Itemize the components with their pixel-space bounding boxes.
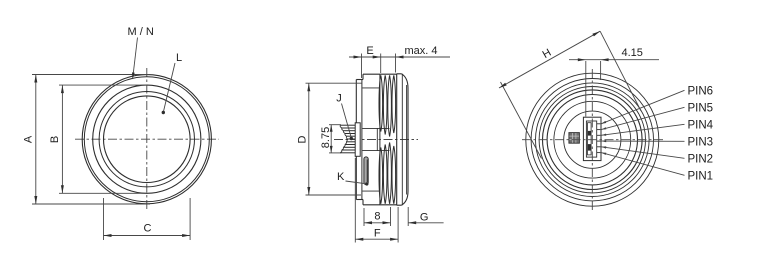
svg-text:PIN1: PIN1: [688, 170, 714, 182]
svg-text:PIN2: PIN2: [688, 153, 714, 165]
dim B extension bottom: [59, 192, 147, 194]
front rim left face lower: [355, 156, 357, 199]
pin 1 leader: [601, 153, 684, 176]
svg-text:L: L: [176, 52, 182, 64]
svg-text:4.15: 4.15: [622, 47, 643, 59]
rear view centerline horizontal: [522, 139, 663, 141]
rear block contact strip: [588, 123, 592, 155]
dim 875 arrow top: [330, 125, 333, 132]
dim G line: [408, 222, 443, 224]
dim A arrow bottom: [34, 196, 37, 204]
svg-text:B: B: [49, 136, 61, 143]
dim A extension bottom: [32, 203, 150, 205]
nut chamfer inner line: [401, 74, 403, 205]
contact plate: [355, 123, 360, 157]
pin 3 leader arrow: [601, 140, 606, 142]
leader M/N: [133, 38, 138, 77]
nut bottom edge: [397, 204, 402, 206]
nut front face: [396, 74, 398, 205]
dim B arrow top: [61, 85, 64, 93]
dim B line: [61, 85, 63, 193]
leader J dot: [350, 137, 353, 140]
body left face top step: [362, 74, 364, 79]
dim 415 line: [569, 59, 659, 61]
dim A arrow top: [34, 75, 37, 83]
side view centerline: [334, 139, 418, 141]
rear block pin ticks: [597, 123, 601, 125]
rear view circle ring5: [543, 90, 643, 190]
pin 5 leader arrow: [601, 127, 606, 129]
dim A line: [35, 75, 37, 205]
bore hidden edge top: [362, 87, 380, 89]
dim E max4 line: [349, 56, 450, 58]
dim D arrow top: [307, 83, 310, 91]
dim E arrow: [354, 56, 362, 59]
svg-text:J: J: [336, 93, 342, 105]
dim G arrow: [408, 221, 416, 224]
svg-text:PIN3: PIN3: [688, 136, 714, 148]
svg-text:M / N: M / N: [128, 26, 154, 38]
svg-text:C: C: [144, 223, 152, 235]
dim D ext top: [306, 82, 362, 84]
dim C extension right: [189, 198, 191, 240]
dim 8 arrow right: [383, 221, 391, 224]
svg-text:A: A: [23, 135, 35, 143]
front view circle mid: [99, 92, 194, 187]
rear view circle ring7: [554, 101, 631, 178]
rear view circle knurl outer: [531, 79, 653, 201]
dim 875 ext top: [329, 124, 341, 126]
body bottom edge: [363, 204, 397, 206]
dim H arrow right: [592, 31, 600, 36]
rear block pad upper: [588, 131, 591, 136]
pin 2 leader arrow: [601, 146, 606, 148]
body left face bottom step: [362, 200, 364, 205]
leader L dot: [162, 111, 165, 114]
dim C arrow right: [182, 234, 190, 237]
dim B arrow bottom: [61, 185, 64, 193]
dim 415 ext right: [600, 61, 602, 80]
dim F ext right: [397, 207, 399, 243]
svg-text:E: E: [366, 45, 373, 57]
rear block outer: [583, 117, 601, 160]
dim H ext left: [501, 82, 542, 159]
front rim left face: [355, 80, 357, 123]
leader J: [342, 104, 352, 137]
pin 3 leader: [601, 140, 684, 142]
front view centerline vertical: [146, 68, 148, 211]
rear view circle ring4: [539, 87, 645, 193]
thread profile: [379, 75, 383, 131]
seal K body: [364, 157, 368, 185]
dim 875 arrow bottom: [330, 146, 333, 153]
svg-text:PIN6: PIN6: [688, 85, 714, 97]
svg-text:8: 8: [374, 210, 380, 222]
rear block pad lower: [588, 144, 591, 151]
nut top edge: [397, 73, 402, 75]
dim E arrow 2: [373, 56, 381, 59]
pin 4 leader: [601, 124, 684, 135]
dim C arrow left: [104, 234, 112, 237]
dim D ext bottom: [306, 194, 362, 196]
rear view circle ring3: [536, 83, 650, 197]
front view centerline horizontal: [75, 138, 219, 140]
front rim bottom edge: [356, 199, 363, 201]
rear view circle inner: [564, 111, 621, 168]
dim 8 ext right: [390, 207, 392, 226]
cavity edge bottom: [362, 150, 389, 152]
flange rear face: [379, 74, 381, 205]
svg-text:F: F: [374, 228, 381, 240]
svg-text:D: D: [297, 135, 309, 143]
dim E ext line 2: [380, 54, 382, 74]
dim 415 arrow right: [601, 58, 609, 61]
dim 8 arrow left: [364, 221, 372, 224]
pin 6 leader: [601, 90, 684, 124]
dim max4 arrow: [396, 56, 404, 59]
dim 875 line: [330, 125, 332, 153]
cavity edge top: [362, 127, 389, 129]
svg-text:K: K: [337, 171, 345, 183]
bore hidden edge bottom: [362, 190, 380, 192]
dim H ext right: [600, 31, 641, 111]
svg-text:PIN4: PIN4: [688, 119, 714, 131]
nut chamfer bottom: [402, 192, 409, 206]
seal K inner line: [366, 160, 368, 183]
leader L: [164, 63, 175, 111]
dim 8 ext left: [363, 208, 365, 226]
rear block inner: [586, 121, 596, 157]
dim 875 ext bottom: [329, 152, 341, 154]
dim F arrow left: [355, 238, 363, 241]
front view circle dia C: [104, 96, 191, 183]
leader K dot: [365, 182, 368, 185]
front view outer circle (thread OD): [82, 75, 211, 204]
dim D arrow bottom: [307, 187, 310, 195]
svg-text:max. 4: max. 4: [405, 45, 438, 57]
front face line: [361, 80, 363, 200]
svg-text:PIN5: PIN5: [688, 102, 714, 114]
front view outer circle inner line: [84, 77, 209, 202]
svg-text:G: G: [420, 212, 429, 224]
svg-text:8.75: 8.75: [320, 127, 332, 148]
dim 8 line: [364, 222, 391, 224]
dim H arrow left: [499, 83, 507, 88]
leader M/N arrow: [132, 72, 135, 79]
leader K: [346, 181, 365, 184]
pin 6 leader arrow: [601, 121, 606, 124]
dim F line: [355, 238, 398, 240]
rear view circle outer: [526, 73, 659, 206]
rear view circle ring6: [547, 95, 637, 185]
pin 1 leader arrow: [601, 153, 606, 155]
dim F ext left: [354, 158, 356, 243]
body top edge: [363, 73, 397, 75]
dim D line: [308, 83, 310, 195]
cavity step: [376, 128, 378, 150]
keyway grid: [569, 133, 580, 144]
dim max4 ext line: [395, 54, 397, 73]
pin 2 leader: [601, 147, 684, 159]
dim 415 arrow left: [578, 58, 586, 61]
dim E ext line: [361, 54, 363, 79]
dim A extension top: [32, 74, 150, 76]
front view circle dia B: [93, 85, 201, 193]
dim B extension top: [59, 84, 147, 86]
dim G ext right: [407, 207, 409, 226]
front rim top edge: [356, 79, 363, 81]
nut inner face line: [406, 85, 408, 195]
contact stack J: [340, 124, 355, 126]
rear view centerline vertical: [591, 69, 593, 212]
pin 5 leader: [601, 107, 684, 129]
dim H line: [499, 31, 600, 88]
dim F arrow right: [390, 238, 398, 241]
dim C line: [104, 235, 191, 237]
nut chamfer top: [402, 74, 409, 88]
nut right face: [407, 88, 409, 192]
dim 415 ext left: [585, 61, 587, 117]
dim C extension left: [103, 198, 105, 240]
pin 4 leader arrow: [601, 134, 606, 136]
